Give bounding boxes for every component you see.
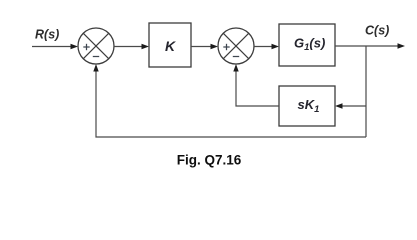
block G1(s) bbox=[279, 24, 335, 66]
minus sign junction 2 bbox=[233, 56, 239, 58]
svg-text:K: K bbox=[165, 38, 176, 54]
wire input to summing junction 1 bbox=[32, 46, 71, 48]
minus sign junction 1 bbox=[93, 56, 99, 58]
svg-text:R(s): R(s) bbox=[35, 28, 59, 42]
wire K to summing junction 2 bbox=[191, 46, 211, 48]
wire junction 1 to K bbox=[114, 46, 142, 48]
plus sign junction 2 bbox=[223, 46, 229, 48]
wire branch into sK1 bbox=[342, 105, 366, 107]
svg-text:G1(s): G1(s) bbox=[294, 36, 325, 54]
plus sign junction 1 bbox=[83, 46, 89, 48]
svg-text:Fig. Q7.16: Fig. Q7.16 bbox=[177, 153, 242, 168]
summing junction 1 (circle with cross, + left, - bottom) bbox=[78, 28, 114, 64]
wire takeoff branch down from output bbox=[365, 46, 367, 137]
block K bbox=[149, 23, 191, 67]
block sK1 bbox=[279, 86, 335, 126]
wire outer feedback loop to junction 1 bottom bbox=[96, 71, 366, 137]
wire junction 2 to G1(s) bbox=[254, 46, 272, 48]
wire G1(s) to output C(s) bbox=[335, 45, 398, 47]
wire sK1 output to junction 2 bottom bbox=[236, 71, 279, 106]
svg-text:sK1: sK1 bbox=[298, 97, 320, 115]
summing junction 2 (circle with cross, + left, - bottom) bbox=[218, 28, 254, 64]
svg-text:C(s): C(s) bbox=[365, 24, 389, 38]
